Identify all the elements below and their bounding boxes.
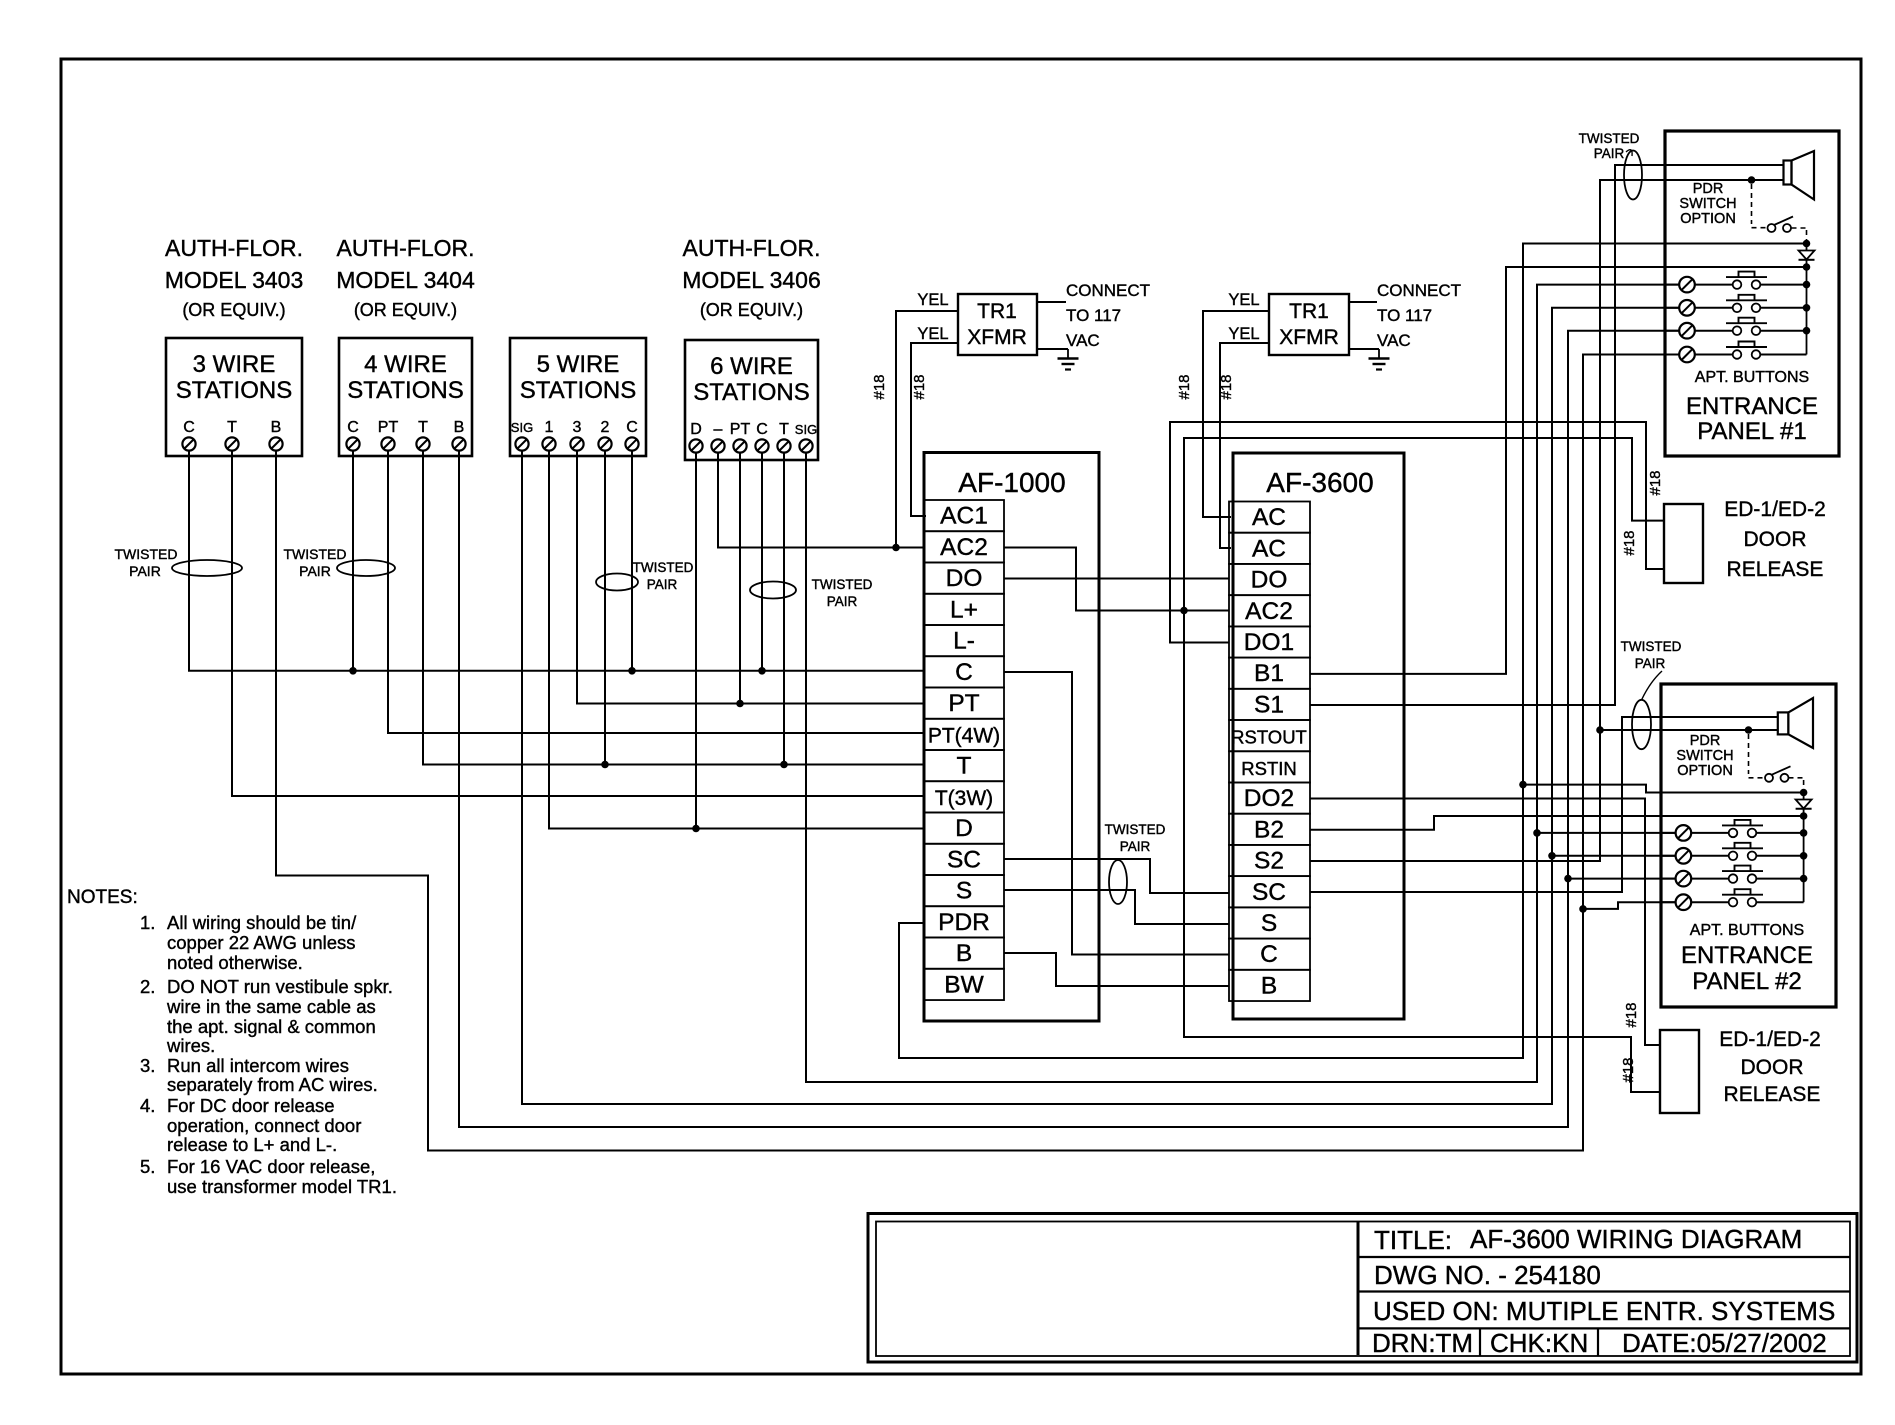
svg-text:#18: #18 [1218,374,1235,399]
svg-text:AC2: AC2 [940,534,988,561]
wire TR1 left primary top [1037,301,1066,303]
svg-text:DOOR: DOOR [1741,1056,1804,1079]
svg-text:DO: DO [946,565,983,592]
wire TR1 left secondary bottom lead to AF-1000 AC1 [911,343,958,516]
wire 6W PT branch [739,452,741,704]
wire button common bus (panel 1) [1806,267,1808,355]
svg-text:SWITCH: SWITCH [1676,748,1733,764]
svg-text:B: B [454,419,465,436]
svg-text:STATIONS: STATIONS [520,377,636,404]
wire AC2 to AC2 link [1004,548,1229,611]
svg-text:OPTION: OPTION [1680,211,1736,227]
wire 5W C branch [631,450,633,671]
svg-text:AC: AC [1252,535,1286,562]
svg-text:YEL: YEL [1228,325,1259,343]
svg-text:DO: DO [1251,567,1288,594]
svg-text:TWISTED: TWISTED [812,577,873,592]
amplifier U1 AF-1000 [924,453,1099,1022]
svg-text:AUTH-FLOR.: AUTH-FLOR. [683,235,821,261]
wire row 1 net (6W SIG to panels) [806,285,1679,1082]
wire AC2 net risers to door releases [1184,438,1664,1092]
svg-text:AF-1000: AF-1000 [958,467,1065,498]
switch SW1 PDR option (panel 1) [1768,217,1794,233]
svg-text:B: B [1261,972,1277,999]
wire PDR net (AF-1000 PDR to panel switch buses) [899,244,1807,1059]
terminal PT(4W) of AF-1000 (pin 8) [924,719,1004,750]
svg-text:2: 2 [601,419,610,436]
terminal T of AF-1000 (pin 9) [924,750,1004,781]
wire SC to SC link [1004,859,1229,893]
junction bus row 3 (panel 2) [1800,875,1808,883]
junction bus row 1 (panel 2) [1800,829,1808,837]
svg-text:PT: PT [378,419,399,436]
svg-text:L-: L- [953,628,975,655]
terminal B2 of AF-3600 (pin 11) [1229,814,1310,845]
station box 6 WIRE STATIONS [685,340,818,460]
twisted pair symbol (4 wire station) [284,546,396,579]
junction PDR / panel 2 tee [1519,781,1527,789]
wire row 1 branch to panel 2 [1537,832,1675,834]
junction diode bottom (panel 1) [1803,263,1811,271]
junction bus row 2 (panel 2) [1800,852,1808,860]
svg-text:AUTH-FLOR.: AUTH-FLOR. [165,235,303,261]
ground (TR1 left) [1058,349,1079,370]
entrance panel 1 enclosure [1665,131,1839,456]
terminal B of AF-1000 (pin 15) [924,938,1004,969]
wire TR1 right secondary bottom lead to AF-3600 AC [1220,343,1269,548]
svg-text:B1: B1 [1254,660,1284,687]
wire D net (5W-1 to AF-1000 D) [549,450,924,829]
title block row lines [1358,1257,1850,1356]
junction row 3 / panel 2 [1564,875,1572,883]
svg-text:S1: S1 [1254,691,1284,718]
diode D2 (panel 2) [1796,793,1812,817]
svg-text:PDR: PDR [1690,733,1721,749]
svg-text:wire in the same cable as: wire in the same cable as [166,996,376,1017]
svg-text:AF-3600 WIRING DIAGRAM: AF-3600 WIRING DIAGRAM [1470,1224,1802,1254]
svg-text:C: C [347,419,359,436]
svg-text:PT: PT [730,421,751,438]
terminal C of AF-3600 (pin 15) [1229,939,1310,970]
svg-text:TWISTED: TWISTED [284,546,347,562]
svg-text:STATIONS: STATIONS [693,379,809,406]
svg-text:TWISTED: TWISTED [1621,639,1682,654]
svg-text:1.: 1. [140,912,155,933]
svg-text:operation, connect door: operation, connect door [167,1115,361,1136]
svg-text:RSTIN: RSTIN [1241,758,1297,779]
svg-text:#18: #18 [1176,374,1193,399]
apartment button row 2 (panel 2) [1661,843,1804,864]
terminal SC of AF-1000 (pin 12) [924,844,1004,875]
svg-text:3.: 3. [140,1055,155,1076]
wire PDR tee to panel 2 switch bus [1523,785,1804,793]
svg-text:TWISTED: TWISTED [633,560,694,575]
svg-text:NOTES:: NOTES: [67,887,138,908]
junction T/6W [780,761,788,769]
svg-text:(OR EQUIV.): (OR EQUIV.) [354,300,457,320]
terminal AC1 of AF-1000 (pin 1) [924,500,1004,531]
wire TR1 left secondary top lead to AC2 junction [896,311,958,548]
svg-text:For DC door release: For DC door release [167,1095,335,1116]
title block frame [868,1214,1857,1363]
apartment button row 2 (panel 1) [1665,295,1807,316]
svg-text:PAIR: PAIR [299,563,331,579]
svg-text:T(3W): T(3W) [935,787,993,810]
svg-text:ED-1/ED-2: ED-1/ED-2 [1724,498,1826,521]
twisted pair symbol (SC/S link) [1105,822,1166,904]
svg-text:RELEASE: RELEASE [1727,558,1824,581]
svg-text:(OR EQUIV.): (OR EQUIV.) [182,300,285,320]
svg-text:DO2: DO2 [1244,785,1294,812]
svg-text:PDR: PDR [938,909,990,936]
wire AC2 net (6W minus terminal to AF-1000 AC2) [718,452,924,548]
wire SC net to panel 2 speaker [1310,717,1778,892]
svg-text:SC: SC [947,846,981,873]
svg-text:release to L+ and L-.: release to L+ and L-. [167,1134,337,1155]
svg-text:ENTRANCE: ENTRANCE [1681,942,1813,969]
wire B2 net to panel 2 diode bus [1310,816,1804,830]
svg-text:#18: #18 [911,374,928,399]
svg-text:copper 22 AWG unless: copper 22 AWG unless [167,932,356,953]
wire DO to DO link [1004,578,1229,580]
wire row 4 branch to panel 2 [1583,902,1675,909]
label ENTRANCE PANEL #2 [1681,942,1813,995]
wire PT(4W) net [388,450,924,733]
wire DO2 net to door release 2 [1310,799,1660,1046]
svg-text:AC: AC [1252,504,1286,531]
wire row 3 net (4W B to panels) [459,331,1679,1127]
svg-text:YEL: YEL [917,325,948,343]
svg-text:VAC: VAC [1066,331,1100,350]
svg-text:B: B [956,940,972,967]
svg-text:For 16 VAC door release,: For 16 VAC door release, [167,1156,375,1177]
svg-text:C: C [955,659,973,686]
svg-text:4 WIRE: 4 WIRE [364,351,447,378]
svg-text:S2: S2 [1254,848,1284,875]
svg-text:CONNECT: CONNECT [1066,281,1150,300]
svg-text:USED ON: MUTIPLE ENTR. SYSTEMS: USED ON: MUTIPLE ENTR. SYSTEMS [1373,1296,1835,1326]
junction T/5W [601,761,609,769]
wire T net (4W-T to AF-1000 T) [423,450,924,765]
junction AC2/TR1 [892,544,900,552]
wire dashed PDR option link (panel 1) [1752,184,1807,241]
svg-text:SC: SC [1252,879,1286,906]
station box 5 WIRE STATIONS [510,338,646,456]
svg-text:APT. BUTTONS: APT. BUTTONS [1690,922,1804,939]
svg-text:T: T [418,419,428,436]
wire row 2 branch to panel 2 [1552,855,1675,857]
transformer TR1 (left) [958,294,1037,355]
junction bus row 3 (panel 1) [1803,327,1811,335]
svg-text:T: T [779,421,789,438]
wire 5W-2 branch [604,450,606,765]
svg-text:L+: L+ [950,596,978,623]
svg-text:DATE:05/27/2002: DATE:05/27/2002 [1622,1328,1827,1358]
svg-text:PT(4W): PT(4W) [928,724,1000,747]
twisted pair symbol (5 wire station) [596,560,694,592]
wire S1 net to panel 1 speaker [1310,165,1784,705]
svg-text:C: C [1260,941,1278,968]
svg-text:TWISTED: TWISTED [115,546,178,562]
svg-text:PAIR: PAIR [1594,146,1625,161]
svg-text:PAIR: PAIR [827,594,858,609]
terminal PT of AF-1000 (pin 7) [924,688,1004,719]
twisted pair symbol (panel 1) [1579,131,1642,200]
wire TR1 right secondary top lead to AF-3600 AC [1203,311,1269,517]
junction diode bottom (panel 2) [1800,812,1808,820]
terminal C of AF-1000 (pin 6) [924,656,1004,687]
transformer TR1 (right) [1269,294,1349,355]
junction switch bus top (panel 2) [1800,789,1808,797]
twisted pair symbol (3 wire station) [115,546,243,579]
label PDR SWITCH OPTION (panel 1) [1679,181,1736,227]
svg-text:wires.: wires. [166,1035,215,1056]
speaker LS1 (panel 1) [1784,151,1815,200]
terminal AC of AF-3600 (pin 2) [1229,533,1310,564]
svg-text:T: T [957,753,972,780]
svg-text:All wiring should be tin/: All wiring should be tin/ [167,912,357,933]
svg-text:separately from AC wires.: separately from AC wires. [167,1074,378,1095]
wire 6W D branch [695,452,697,829]
svg-text:PAIR: PAIR [1120,839,1151,854]
svg-text:#18: #18 [1621,530,1638,555]
terminal B1 of AF-3600 (pin 6) [1229,658,1310,689]
svg-text:ENTRANCE: ENTRANCE [1686,393,1818,420]
wire B1 net to panel 1 diode bus [1310,267,1807,674]
terminal S1 of AF-3600 (pin 7) [1229,689,1310,720]
junction D/6W [692,825,700,833]
wire row 4 net (3W B to panels) [276,355,1679,1151]
junction switch bus top (panel 1) [1803,240,1811,248]
svg-text:DO NOT run vestibule spkr.: DO NOT run vestibule spkr. [167,976,393,997]
svg-text:DWG NO. - 254180: DWG NO. - 254180 [1374,1260,1601,1290]
svg-text:B: B [271,419,282,436]
diode D1 (panel 1) [1799,244,1815,268]
svg-text:XFMR: XFMR [1279,326,1339,349]
junction panel 1 speaker / PDR option [1748,176,1756,184]
svg-text:AF-3600: AF-3600 [1266,467,1373,498]
svg-text:PT: PT [948,690,979,717]
svg-text:PDR: PDR [1693,181,1724,197]
label CONNECT TO 117 VAC (TR1 left) [1066,281,1150,350]
terminal DO of AF-1000 (pin 3) [924,563,1004,594]
svg-text:#18: #18 [1647,470,1664,495]
svg-text:1: 1 [545,419,554,436]
svg-text:PAIR: PAIR [1635,656,1666,671]
wire 6W C branch [761,452,763,671]
svg-text:D: D [690,421,702,438]
junction C/4W [349,667,357,675]
terminal L- of AF-1000 (pin 5) [924,625,1004,656]
svg-text:YEL: YEL [1228,291,1259,309]
wire C net (stations common to AF-1000 C) [189,450,924,671]
svg-text:AC1: AC1 [940,503,988,530]
junction C/6W [758,667,766,675]
svg-text:RELEASE: RELEASE [1724,1083,1821,1106]
wire S2 net to panel speakers [1310,180,1784,861]
svg-text:D: D [955,815,973,842]
notes text block [67,887,397,1197]
ground (TR1 right) [1369,349,1390,370]
svg-text:MODEL 3406: MODEL 3406 [682,267,821,293]
wire panel 2 speaker branch [1600,729,1778,731]
svg-text:SWITCH: SWITCH [1679,196,1736,212]
svg-text:DRN:TM: DRN:TM [1372,1328,1473,1358]
svg-text:Run all intercom wires: Run all intercom wires [167,1055,349,1076]
junction S2 / panel 2 speaker tee [1596,726,1604,734]
wire 6W T branch [783,452,785,765]
svg-text:XFMR: XFMR [967,326,1027,349]
door release DR2 ED-1/ED-2 [1660,1028,1821,1113]
apartment button row 1 (panel 1) [1665,272,1807,293]
svg-text:PAIR: PAIR [129,563,161,579]
wire row 2 net (5W SIG to panels) [522,308,1679,1104]
svg-text:APT. BUTTONS: APT. BUTTONS [1695,369,1809,386]
switch SW2 PDR option (panel 2) [1765,766,1791,782]
terminal AC2 of AF-1000 (pin 2) [924,531,1004,562]
svg-text:RSTOUT: RSTOUT [1231,727,1307,748]
station box 4 WIRE STATIONS [339,338,472,456]
terminal BW of AF-1000 (pin 16) [924,969,1004,1000]
svg-text:TO 117: TO 117 [1066,306,1121,325]
wire TR1 right primary bottom to ground [1349,348,1379,350]
wire S to S link [1004,890,1229,924]
svg-text:PAIR: PAIR [647,577,678,592]
svg-text:BW: BW [944,971,984,998]
svg-text:T: T [227,419,237,436]
label TITLE: AF-3600 WIRING DIAGRAM [1374,1224,1802,1255]
wire dashed PDR option link (panel 2) [1749,734,1804,790]
svg-text:PANEL #2: PANEL #2 [1692,968,1801,995]
svg-text:TR1: TR1 [1289,300,1329,323]
svg-text:S: S [1261,910,1277,937]
svg-text:SIG: SIG [511,420,533,435]
svg-text:DO1: DO1 [1244,629,1294,656]
label PDR SWITCH OPTION (panel 2) [1676,733,1733,779]
junction row 1 / panel 2 [1533,829,1541,837]
svg-text:TWISTED: TWISTED [1105,822,1166,837]
svg-text:4.: 4. [140,1095,155,1116]
entrance panel 2 enclosure [1661,684,1836,1007]
terminal RSTOUT of AF-3600 (pin 8) [1229,720,1310,751]
svg-text:noted otherwise.: noted otherwise. [167,952,303,973]
wire DO1 net to door release 1 [1170,422,1664,643]
junction C/5W [628,667,636,675]
svg-text:5 WIRE: 5 WIRE [537,351,620,378]
svg-text:STATIONS: STATIONS [347,377,463,404]
wire C to C link [1004,672,1229,955]
svg-text:TO 117: TO 117 [1377,306,1432,325]
svg-text:DOOR: DOOR [1744,528,1807,551]
wire TR1 right primary top [1349,301,1377,303]
svg-text:C: C [626,419,638,436]
label CONNECT TO 117 VAC (TR1 right) [1377,281,1461,350]
svg-text:the apt. signal & common: the apt. signal & common [167,1016,376,1037]
wire TR1 left primary bottom to ground [1037,348,1068,350]
junction speaker wire / PDR option (panel 2) [1745,726,1753,734]
terminal S of AF-1000 (pin 13) [924,875,1004,906]
svg-text:AC2: AC2 [1245,598,1293,625]
svg-text:B2: B2 [1254,816,1284,843]
svg-text:5.: 5. [140,1156,155,1177]
wire B to B link [1004,953,1229,986]
junction row 4 / panel 2 [1579,905,1587,913]
svg-text:#18: #18 [1620,1057,1637,1082]
svg-text:TITLE:: TITLE: [1374,1225,1452,1255]
svg-text:#18: #18 [871,374,888,399]
apartment button row 1 (panel 2) [1661,820,1804,841]
svg-text:TWISTED: TWISTED [1579,131,1640,146]
svg-text:C: C [183,419,195,436]
junction AC2 link / release riser [1180,607,1188,615]
wire PT net (5W-3 to AF-1000 PT) [577,450,924,704]
terminal D of AF-1000 (pin 11) [924,813,1004,844]
terminal PDR of AF-1000 (pin 14) [924,906,1004,937]
svg-text:YEL: YEL [917,291,948,309]
wire row 3 branch to panel 2 [1568,878,1675,880]
terminal DO of AF-3600 (pin 3) [1229,564,1310,595]
terminal SC of AF-3600 (pin 13) [1229,876,1310,907]
svg-text:OPTION: OPTION [1677,763,1733,779]
svg-text:–: – [714,421,723,438]
terminal AC2 of AF-3600 (pin 4) [1229,595,1310,626]
svg-text:CHK:KN: CHK:KN [1490,1328,1588,1358]
terminal S2 of AF-3600 (pin 12) [1229,845,1310,876]
svg-text:MODEL 3403: MODEL 3403 [165,267,304,293]
apartment button row 3 (panel 2) [1661,866,1804,887]
label ENTRANCE PANEL #1 [1686,393,1818,445]
svg-text:use transformer model TR1.: use transformer model TR1. [167,1176,397,1197]
svg-text:S: S [956,878,972,905]
junction bus row 1 (panel 1) [1803,281,1811,289]
apartment button row 4 (panel 1) [1665,342,1807,363]
svg-text:TR1: TR1 [977,300,1017,323]
terminal AC of AF-3600 (pin 1) [1229,502,1310,533]
svg-text:SIG: SIG [795,422,817,437]
terminal T(3W) of AF-1000 (pin 10) [924,781,1004,812]
svg-text:CONNECT: CONNECT [1377,281,1461,300]
svg-text:AUTH-FLOR.: AUTH-FLOR. [337,235,475,261]
twisted pair symbol (6 wire station) [750,577,873,609]
control unit U2 AF-3600 [1233,453,1404,1019]
station box 3 WIRE STATIONS [166,338,302,456]
terminal DO2 of AF-3600 (pin 10) [1229,783,1310,814]
junction PT/6W [736,700,744,708]
junction bus row 2 (panel 1) [1803,304,1811,312]
svg-text:PANEL #1: PANEL #1 [1697,418,1806,445]
door release DR1 ED-1/ED-2 [1664,498,1826,583]
apartment button row 3 (panel 1) [1665,318,1807,339]
wire T(3W) net [232,450,924,796]
terminal B of AF-3600 (pin 16) [1229,970,1310,1001]
svg-text:2.: 2. [140,976,155,997]
terminal DO1 of AF-3600 (pin 5) [1229,626,1310,657]
svg-text:VAC: VAC [1377,331,1411,350]
terminal RSTIN of AF-3600 (pin 9) [1229,751,1310,782]
twisted pair symbol (panel 2) [1621,639,1682,749]
svg-text:3: 3 [573,419,582,436]
svg-text:3 WIRE: 3 WIRE [193,351,276,378]
apartment button row 4 (panel 2) [1661,889,1804,910]
wire 4W C branch [352,450,354,671]
speaker LS2 (panel 2) [1778,698,1813,748]
svg-text:C: C [756,421,768,438]
wire button common bus (panel 2) [1803,816,1805,902]
junction row 2 / panel 2 [1548,852,1556,860]
svg-text:(OR EQUIV.): (OR EQUIV.) [700,300,803,320]
svg-text:#18: #18 [1623,1002,1640,1027]
terminal L+ of AF-1000 (pin 4) [924,594,1004,625]
